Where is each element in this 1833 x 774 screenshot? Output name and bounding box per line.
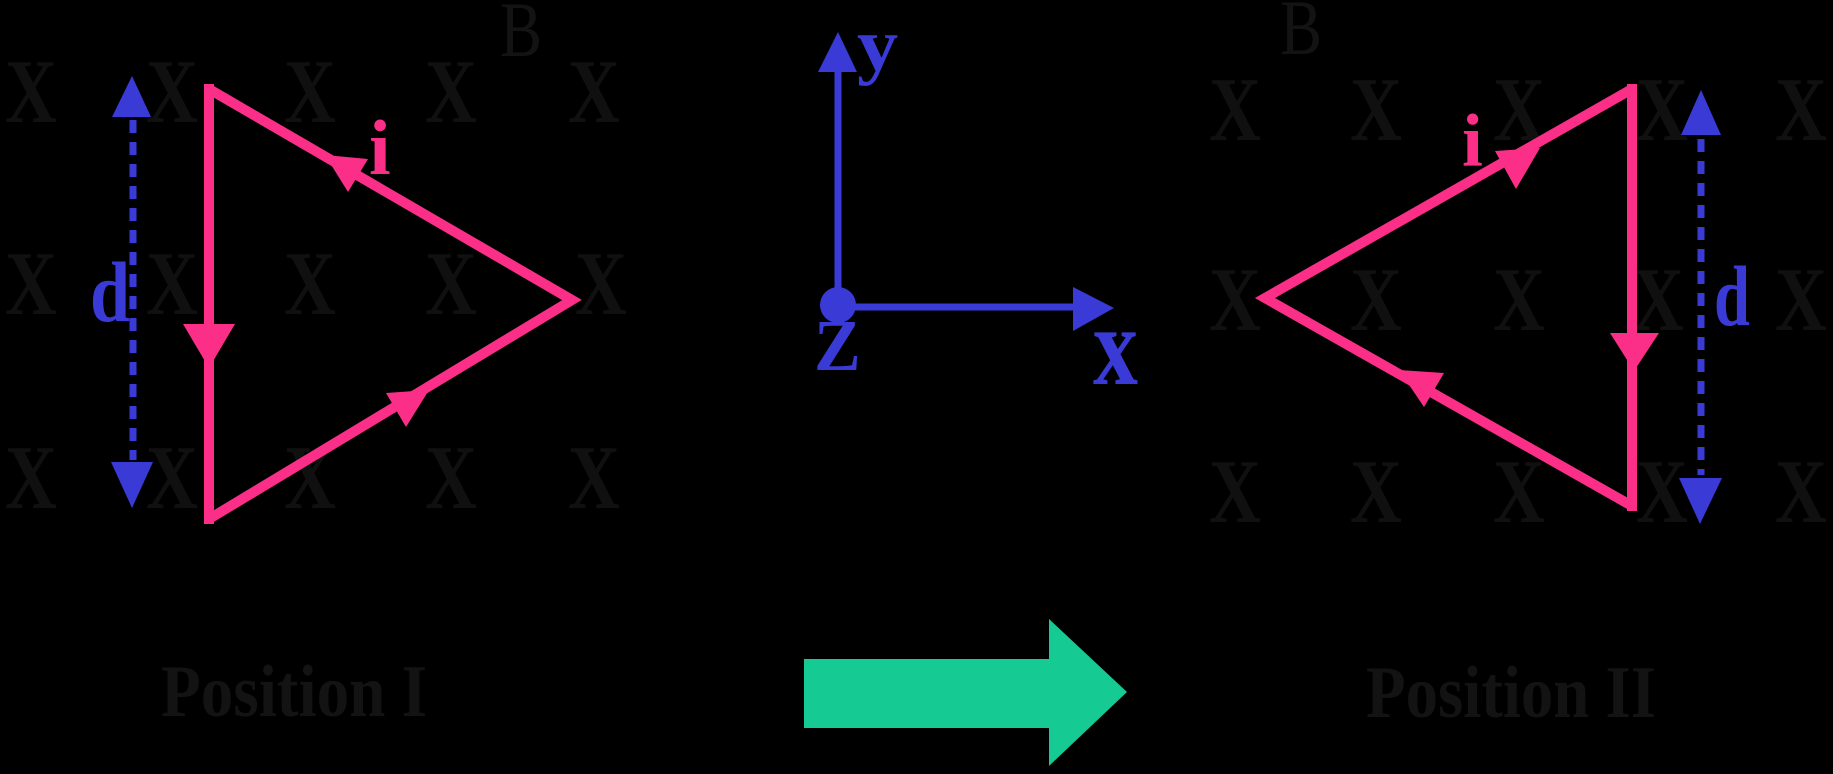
svg-text:Position I: Position I	[161, 651, 427, 733]
svg-text:i: i	[1462, 100, 1483, 183]
svg-text:X: X	[146, 41, 198, 142]
right dimension arrow down	[1679, 478, 1722, 524]
svg-text:X: X	[5, 427, 57, 528]
svg-text:X: X	[284, 41, 336, 142]
svg-text:X: X	[575, 233, 627, 334]
svg-text:X: X	[5, 233, 57, 334]
left loop current arrow top edge	[325, 155, 368, 192]
svg-text:X: X	[1209, 441, 1261, 542]
right loop slanted edges	[1265, 89, 1632, 506]
svg-text:Z: Z	[814, 306, 861, 387]
svg-text:X: X	[1350, 441, 1402, 542]
svg-text:X: X	[1775, 249, 1827, 350]
origin dot Z	[820, 287, 856, 323]
axis x arrowhead	[1073, 287, 1114, 331]
svg-text:X: X	[568, 427, 620, 528]
svg-text:X: X	[1775, 59, 1827, 160]
svg-text:X: X	[425, 233, 477, 334]
svg-text:y: y	[857, 4, 898, 87]
svg-text:d: d	[1714, 248, 1750, 344]
svg-text:x: x	[1093, 285, 1138, 410]
svg-text:X: X	[568, 41, 620, 142]
svg-text:X: X	[425, 427, 477, 528]
svg-text:i: i	[369, 104, 391, 191]
left triangular loop wire	[204, 84, 214, 524]
left dimension arrow down	[111, 462, 153, 508]
svg-text:B: B	[1280, 0, 1322, 71]
svg-text:X: X	[1209, 249, 1261, 350]
svg-text:B: B	[500, 0, 542, 73]
right dimension arrow up	[1681, 90, 1721, 135]
svg-text:d: d	[90, 244, 130, 340]
right loop current arrow down (right side)	[1610, 333, 1659, 371]
right dimension line d (dashed)	[1698, 139, 1705, 475]
svg-text:X: X	[146, 233, 198, 334]
left loop current arrow down (left side)	[183, 324, 235, 368]
left loop current arrow bottom edge	[386, 390, 429, 427]
left loop slanted edges	[209, 89, 572, 519]
left dimension line d (dashed)	[130, 120, 137, 460]
right loop current arrow top edge	[1495, 148, 1540, 189]
svg-text:X: X	[284, 233, 336, 334]
svg-text:X: X	[1350, 59, 1402, 160]
left dimension arrow up	[112, 76, 151, 117]
svg-text:X: X	[1493, 249, 1545, 350]
axis y line	[835, 70, 842, 307]
svg-text:X: X	[425, 41, 477, 142]
svg-text:Position II: Position II	[1366, 652, 1656, 734]
svg-text:X: X	[1636, 441, 1688, 542]
svg-text:X: X	[1636, 59, 1688, 160]
svg-text:X: X	[5, 41, 57, 142]
right triangular loop wire	[1627, 84, 1637, 511]
transition arrow shaft	[804, 659, 1049, 728]
svg-text:X: X	[146, 427, 198, 528]
axis y arrowhead	[818, 32, 857, 72]
transition arrow head	[1049, 619, 1127, 766]
svg-text:X: X	[1350, 249, 1402, 350]
svg-text:X: X	[1775, 441, 1827, 542]
axis x line	[838, 304, 1074, 311]
svg-text:X: X	[1209, 59, 1261, 160]
right loop current arrow bottom edge	[1399, 370, 1444, 407]
